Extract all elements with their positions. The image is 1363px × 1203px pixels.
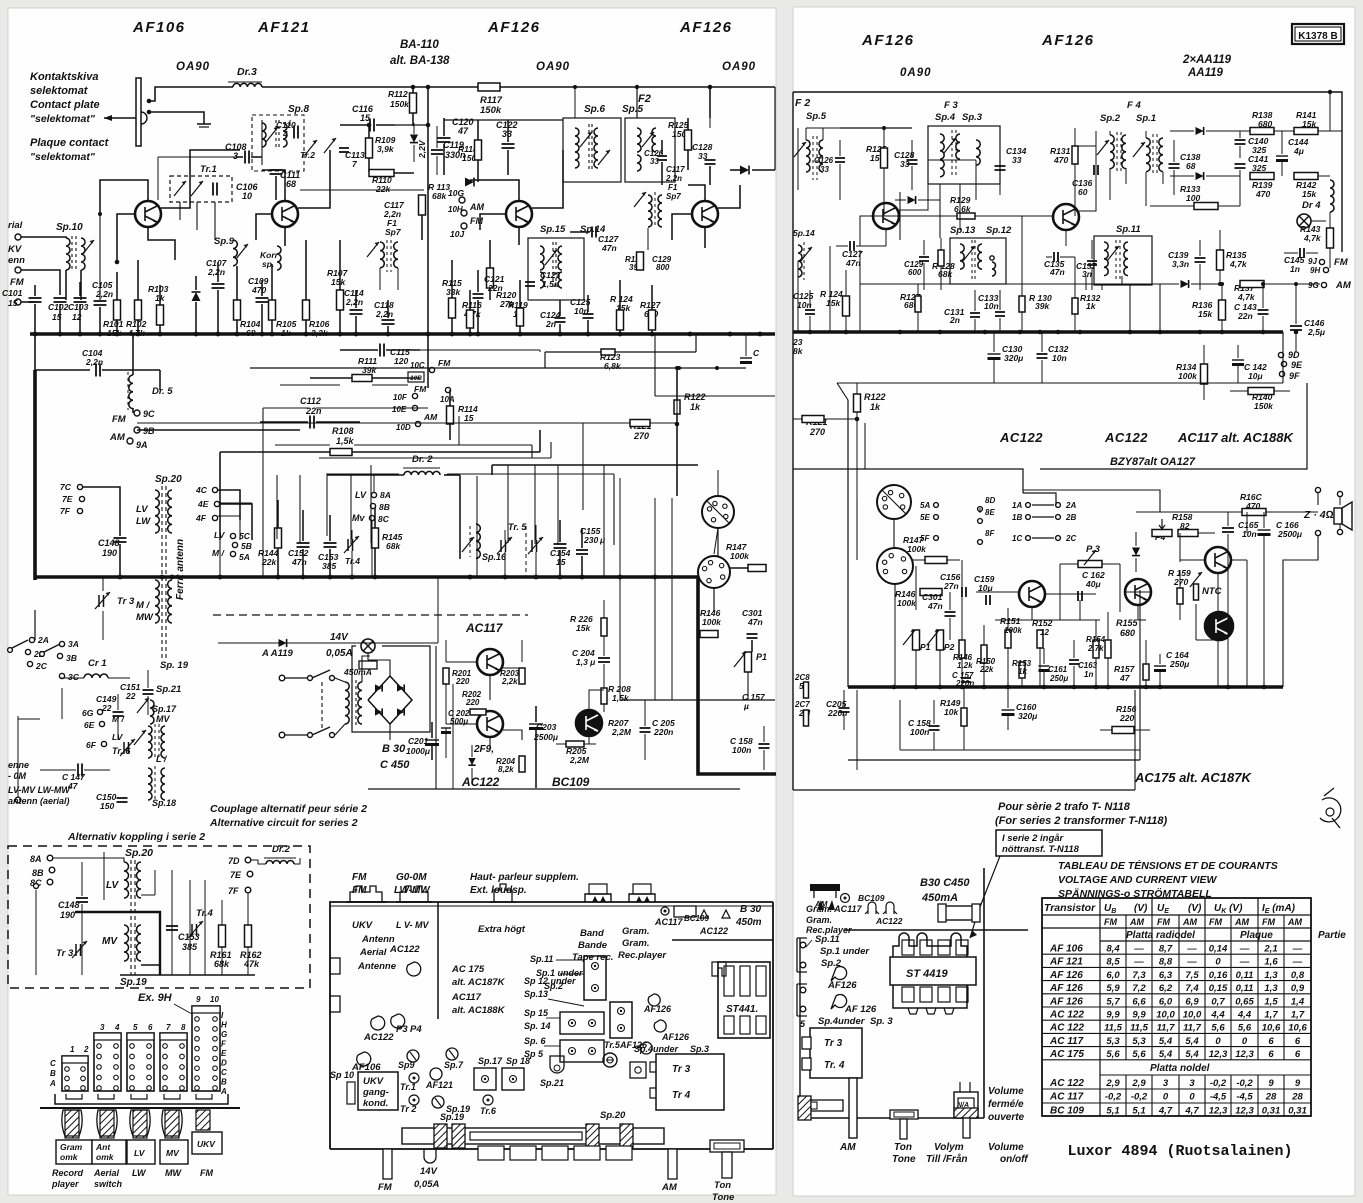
wire rf r2 <box>839 185 841 200</box>
svg-text:P2: P2 <box>944 642 955 652</box>
thick ground bus left page <box>30 332 775 336</box>
svg-text:22k: 22k <box>979 665 994 674</box>
svg-text:12,3: 12,3 <box>1209 1105 1228 1116</box>
svg-text:alt. AC187K: alt. AC187K <box>452 977 506 988</box>
svg-text:1,3: 1,3 <box>1264 983 1278 994</box>
bridge rectifier <box>368 676 412 724</box>
svg-text:5E: 5E <box>920 513 930 522</box>
svg-text:68k: 68k <box>938 269 953 279</box>
IF can 2 <box>610 1002 632 1038</box>
svg-text:UKV: UKV <box>197 1139 216 1149</box>
svg-text:AM: AM <box>109 432 126 443</box>
svg-text:—: — <box>1292 957 1303 968</box>
svg-text:Pour sèrie 2 trafo T- N118: Pour sèrie 2 trafo T- N118 <box>998 801 1131 813</box>
svg-text:G: G <box>221 1030 227 1039</box>
svg-text:B 30: B 30 <box>382 743 406 755</box>
screw near tr5 <box>630 1062 646 1078</box>
svg-text:Platta noldel: Platta noldel <box>1150 1063 1210 1074</box>
svg-text:47n: 47n <box>927 601 943 611</box>
svg-text:8C: 8C <box>378 514 390 524</box>
svg-text:AC 122: AC 122 <box>1049 1078 1084 1089</box>
svg-text:AM: AM <box>469 202 484 212</box>
wires bc109 <box>589 690 604 710</box>
svg-text:Tr.6: Tr.6 <box>480 1106 497 1116</box>
svg-text:MV: MV <box>166 1148 180 1158</box>
svg-text:AM: AM <box>423 412 438 422</box>
svg-text:0,14: 0,14 <box>1209 944 1228 955</box>
svg-text:fermé/e: fermé/e <box>988 1099 1024 1110</box>
svg-text:2,2n: 2,2n <box>345 297 363 307</box>
svg-text:100k: 100k <box>730 551 750 561</box>
svg-text:470: 470 <box>1053 155 1068 165</box>
svg-text:AC 122: AC 122 <box>1049 1010 1084 1021</box>
svg-text:Tr. 6: Tr. 6 <box>112 746 131 756</box>
svg-text:Sp9: Sp9 <box>398 1060 415 1070</box>
wire matrix <box>1023 493 1056 505</box>
svg-text:Tr 3: Tr 3 <box>56 948 74 959</box>
svg-text:6: 6 <box>1295 1036 1301 1047</box>
socket extra hogt <box>494 884 512 902</box>
screw Tr1 <box>409 1073 419 1083</box>
svg-text:BZY87alt OA127: BZY87alt OA127 <box>1110 456 1196 468</box>
svg-text:Gram. AC117: Gram. AC117 <box>806 904 863 914</box>
svg-text:60: 60 <box>1078 187 1088 197</box>
wires T3 region <box>470 180 519 201</box>
terminals 8A 8B 8C alt <box>47 855 53 861</box>
svg-text:5,9: 5,9 <box>1106 983 1120 994</box>
svg-text:Volym: Volym <box>934 1142 964 1153</box>
svg-text:FM: FM <box>1262 917 1275 927</box>
svg-text:1C: 1C <box>1012 534 1022 543</box>
svg-text:1,5k: 1,5k <box>336 436 355 446</box>
right page <box>793 7 1355 1196</box>
svg-text:47k: 47k <box>243 959 260 969</box>
socket UKV top <box>350 886 382 902</box>
dashed line mid <box>213 614 528 616</box>
wire am line <box>860 283 1160 285</box>
chassis line <box>40 1107 240 1109</box>
IF transformer Sp13 Sp12 <box>950 238 1006 284</box>
svg-text:10F: 10F <box>393 393 408 402</box>
svg-text:Dr 4: Dr 4 <box>1302 200 1321 211</box>
svg-text:F 4: F 4 <box>1127 100 1141 111</box>
svg-text:Cr 1: Cr 1 <box>88 658 106 669</box>
svg-text:0,31: 0,31 <box>1288 1105 1307 1116</box>
svg-text:1: 1 <box>70 1045 75 1054</box>
svg-text:5,6: 5,6 <box>1238 1023 1252 1034</box>
diode AA119 <box>218 642 438 644</box>
wire 4C runs <box>218 489 240 491</box>
svg-text:C126: C126 <box>814 156 834 165</box>
transformer Sp11 <box>1094 236 1152 285</box>
svg-text:40μ: 40μ <box>1085 579 1101 589</box>
DIN socket 2 <box>698 556 730 588</box>
wires 4x <box>218 490 240 520</box>
svg-text:Sp 12 under: Sp 12 under <box>524 976 576 986</box>
svg-text:9: 9 <box>1295 1078 1301 1089</box>
resistor R102 <box>137 260 139 300</box>
terminal 10C <box>429 367 434 372</box>
svg-text:15k: 15k <box>1302 189 1317 199</box>
svg-text:H: H <box>221 1021 227 1030</box>
svg-text:AF 126: AF 126 <box>1049 970 1083 981</box>
svg-text:0,15: 0,15 <box>1209 983 1228 994</box>
svg-text:Sp.20: Sp.20 <box>155 474 182 485</box>
svg-text:Gram: Gram <box>60 1142 83 1152</box>
socket gram <box>629 894 655 902</box>
svg-text:FM: FM <box>378 1182 393 1193</box>
wire drop from BA-110 <box>427 87 429 388</box>
svg-text:AC 117: AC 117 <box>1049 1036 1084 1047</box>
svg-text:5C: 5C <box>239 531 251 541</box>
svg-text:Ex. 9H: Ex. 9H <box>138 992 173 1004</box>
svg-text:8B: 8B <box>379 502 390 512</box>
svg-text:—: — <box>1239 957 1250 968</box>
svg-text:AF126: AF126 <box>619 1040 648 1050</box>
svg-text:(V): (V) <box>1188 903 1202 914</box>
svg-text:Sp. 19: Sp. 19 <box>160 660 189 671</box>
svg-text:6,2: 6,2 <box>1159 983 1173 994</box>
svg-text:8,7: 8,7 <box>1159 944 1173 955</box>
svg-text:1k: 1k <box>155 293 166 303</box>
knob Gram omk <box>65 1110 79 1138</box>
svg-text:KV: KV <box>8 244 22 255</box>
svg-text:14V: 14V <box>330 632 349 643</box>
svg-text:C 450: C 450 <box>380 759 410 771</box>
svg-text:4,4: 4,4 <box>1210 1010 1225 1021</box>
diode zener 2,2V <box>410 135 418 143</box>
terminal 9E <box>1281 361 1286 366</box>
svg-text:L V- MV: L V- MV <box>396 920 429 930</box>
svg-text:7F: 7F <box>60 506 71 516</box>
svg-text:11,7: 11,7 <box>1157 1023 1176 1034</box>
svg-text:3: 3 <box>1189 1078 1195 1089</box>
svg-text:470: 470 <box>251 285 266 295</box>
wire socket link <box>714 528 718 554</box>
socket band <box>585 894 611 902</box>
svg-text:15: 15 <box>464 413 474 423</box>
terminals 3A 3B 3C <box>59 641 64 646</box>
svg-text:Sp.1: Sp.1 <box>1136 113 1156 124</box>
ferrite antenna Sp.19 MW <box>155 580 159 623</box>
svg-text:Sp.16: Sp.16 <box>482 552 507 562</box>
trimmer Tr4 alt <box>191 924 193 936</box>
wire audio extra <box>995 619 1100 621</box>
Ton shaft <box>890 1110 918 1119</box>
transistor AC122 a <box>1019 581 1045 607</box>
bridge loop <box>352 646 430 732</box>
svg-text:AF 126: AF 126 <box>844 1004 877 1015</box>
svg-text:8A: 8A <box>380 490 391 500</box>
svg-text:ST441.: ST441. <box>726 1004 758 1015</box>
svg-text:5A: 5A <box>239 552 250 562</box>
svg-text:2500μ: 2500μ <box>533 732 559 742</box>
svg-text:6,3: 6,3 <box>1159 970 1173 981</box>
svg-text:Sp. 14: Sp. 14 <box>524 1021 551 1031</box>
svg-text:10,0: 10,0 <box>1183 1010 1202 1021</box>
svg-text:6F: 6F <box>86 740 97 750</box>
wire left top drops <box>159 370 161 390</box>
svg-text:Dr.3: Dr.3 <box>237 66 257 78</box>
svg-text:100: 100 <box>1186 193 1200 203</box>
svg-text:250μ: 250μ <box>1049 674 1068 683</box>
svg-text:Sp.11: Sp.11 <box>530 954 553 964</box>
svg-text:1,7: 1,7 <box>1264 1010 1278 1021</box>
svg-text:OA90: OA90 <box>722 61 756 73</box>
svg-text:AC122: AC122 <box>461 775 500 789</box>
svg-text:AF106: AF106 <box>132 19 186 36</box>
svg-text:AC 122: AC 122 <box>1049 1023 1084 1034</box>
svg-text:325: 325 <box>1252 163 1266 173</box>
svg-text:15: 15 <box>8 298 18 308</box>
svg-text:15k: 15k <box>576 623 591 633</box>
svg-text:8,4: 8,4 <box>1106 944 1120 955</box>
connector bar <box>55 1094 228 1104</box>
svg-text:AC 175: AC 175 <box>451 964 485 975</box>
svg-text:E: E <box>221 1049 227 1058</box>
svg-text:AF 126: AF 126 <box>1049 996 1083 1007</box>
svg-text:10μ: 10μ <box>1248 371 1263 381</box>
svg-text:28: 28 <box>1291 1092 1303 1103</box>
Tr3 Tr4 box right <box>810 1028 862 1078</box>
svg-text:AF126: AF126 <box>661 1032 690 1042</box>
transistor T4 AF126 <box>692 201 718 227</box>
wire r1 <box>806 127 840 129</box>
svg-text:Band: Band <box>580 928 604 939</box>
svg-text:4: 4 <box>114 1023 120 1032</box>
wide can 2 <box>560 1040 604 1062</box>
svg-text:Alternative circuit for ser: Alternative circuit for series 2 <box>209 817 358 829</box>
svg-text:NTC: NTC <box>1202 586 1222 597</box>
svg-text:39k: 39k <box>1035 301 1050 311</box>
svg-text:450mA: 450mA <box>921 892 958 904</box>
transistor T6 right <box>1053 204 1079 230</box>
resistor R153 <box>1019 662 1025 678</box>
svg-text:450m: 450m <box>735 917 762 928</box>
svg-text:-4,5: -4,5 <box>1210 1092 1227 1103</box>
svg-text:Sp 5: Sp 5 <box>524 1049 544 1059</box>
svg-text:AF121: AF121 <box>257 19 311 36</box>
svg-text:C117: C117 <box>666 165 685 174</box>
svg-text:Sp.17: Sp.17 <box>478 1056 503 1066</box>
lamp right <box>1297 214 1311 228</box>
svg-text:9E: 9E <box>1291 360 1303 370</box>
wire y368 <box>250 367 746 369</box>
knob MV <box>165 1110 179 1138</box>
svg-text:250μ: 250μ <box>1169 659 1190 669</box>
svg-text:9A: 9A <box>136 440 148 450</box>
svg-text:Tr.5: Tr.5 <box>604 1040 621 1050</box>
left wall tabs <box>330 958 340 974</box>
svg-text:Partie: Partie <box>1318 930 1346 941</box>
svg-text:9D: 9D <box>1288 350 1300 360</box>
terminal 9B <box>134 427 140 433</box>
svg-text:C163: C163 <box>1078 661 1098 670</box>
svg-text:AC117: AC117 <box>451 992 482 1003</box>
svg-text:P1: P1 <box>920 642 931 652</box>
coil F1Sp7 <box>648 195 652 227</box>
svg-text:omk: omk <box>96 1152 115 1162</box>
terminal 9A <box>127 438 133 444</box>
svg-text:100n: 100n <box>910 727 929 737</box>
terminal 9J FM <box>1319 259 1324 264</box>
svg-text:10A: 10A <box>440 395 455 404</box>
svg-text:selektomat: selektomat <box>30 85 89 97</box>
svg-text:15k: 15k <box>331 277 346 287</box>
diode AA119 top <box>1196 127 1204 135</box>
svg-text:22n: 22n <box>1237 311 1253 321</box>
svg-text:Sp. 3: Sp. 3 <box>870 1016 893 1027</box>
tuning shaft <box>402 1128 664 1144</box>
svg-text:BC109: BC109 <box>552 775 590 789</box>
svg-text:Antenne: Antenne <box>357 961 397 972</box>
svg-text:AC 117: AC 117 <box>1049 1092 1084 1103</box>
svg-text:AC122: AC122 <box>363 1032 394 1043</box>
svg-text:Sp.21: Sp.21 <box>156 684 181 695</box>
svg-text:12: 12 <box>72 312 82 322</box>
svg-text:M /: M / <box>212 548 225 558</box>
svg-text:UK (V): UK (V) <box>1214 903 1243 915</box>
svg-text:2n: 2n <box>949 315 960 325</box>
wire rf r6 <box>1065 230 1067 246</box>
bottom frame audio <box>848 759 1140 761</box>
svg-text:Extra högt: Extra högt <box>478 924 526 935</box>
svg-text:Sp.11: Sp.11 <box>815 934 840 945</box>
right chassis outline <box>983 868 985 1118</box>
socket LV-MV <box>400 886 428 902</box>
svg-text:8,2k: 8,2k <box>498 765 514 774</box>
svg-text:10n: 10n <box>797 300 812 310</box>
svg-text:3B: 3B <box>66 653 77 663</box>
svg-text:AC122: AC122 <box>389 944 420 955</box>
bus second line <box>34 334 36 370</box>
terminal 9F <box>1279 371 1284 376</box>
capacitor C102 <box>54 297 67 299</box>
transformer F1 Sp7 <box>380 242 384 268</box>
svg-text:190: 190 <box>60 910 75 920</box>
svg-text:AA119: AA119 <box>1187 67 1224 79</box>
svg-text:μ: μ <box>599 535 606 545</box>
transistor T2 AF121 <box>272 201 298 227</box>
svg-text:Sp.11: Sp.11 <box>1116 224 1141 235</box>
svg-text:AF126: AF126 <box>1041 32 1095 49</box>
svg-text:8F: 8F <box>985 529 995 538</box>
svg-text:320μ: 320μ <box>1004 353 1024 363</box>
svg-text:omk: omk <box>60 1152 79 1162</box>
resistor R151 <box>1005 630 1011 648</box>
capacitor C152 <box>297 542 310 544</box>
svg-text:ST 4419: ST 4419 <box>906 968 948 980</box>
svg-text:µ: µ <box>743 701 749 711</box>
screw Sp19 <box>432 1096 444 1108</box>
svg-text:FM: FM <box>200 1168 213 1178</box>
svg-text:7E: 7E <box>62 494 73 504</box>
DIN socket r2 <box>877 548 913 584</box>
svg-text:68k: 68k <box>386 541 401 551</box>
coil Sp.16 <box>476 524 480 558</box>
wire y394 <box>654 335 656 396</box>
svg-text:6,9: 6,9 <box>1185 996 1199 1007</box>
svg-text:B30 C450: B30 C450 <box>920 877 970 889</box>
svg-text:7,4: 7,4 <box>1185 983 1199 994</box>
wire am drop <box>1295 284 1297 290</box>
IF transformer right F2 <box>806 140 810 172</box>
terminals 6G 6E 6F <box>97 709 102 714</box>
trimmer Tr.6 <box>123 742 125 754</box>
svg-text:R122: R122 <box>684 392 706 402</box>
svg-text:C112: C112 <box>300 396 321 406</box>
svg-text:Plaque contact: Plaque contact <box>30 137 110 149</box>
potentiometer P1 r <box>913 630 920 650</box>
svg-text:47n: 47n <box>291 557 307 567</box>
chassis right edge <box>772 902 774 1149</box>
thick L to right <box>698 577 776 774</box>
svg-text:Gram.: Gram. <box>622 938 649 949</box>
svg-text:2n: 2n <box>545 319 556 329</box>
IF transformer F3 <box>928 126 1000 184</box>
svg-text:10: 10 <box>242 191 252 201</box>
svg-text:AC117 alt. AC188K: AC117 alt. AC188K <box>1177 430 1294 445</box>
wire rf r9 <box>1085 276 1087 290</box>
svg-text:8,8: 8,8 <box>1159 957 1173 968</box>
svg-text:5,4: 5,4 <box>1159 1049 1173 1060</box>
svg-text:800: 800 <box>656 263 670 272</box>
svg-text:15: 15 <box>556 557 566 567</box>
svg-text:10n: 10n <box>984 301 999 311</box>
wires Dr2 area <box>459 475 461 559</box>
platform <box>672 939 773 941</box>
capacitor C103 <box>74 297 87 299</box>
svg-text:enn: enn <box>8 255 25 266</box>
diode r mid <box>908 196 916 204</box>
wire socket r <box>893 519 895 548</box>
diode am det <box>1181 280 1189 288</box>
svg-text:R151: R151 <box>1000 616 1021 626</box>
svg-text:Sp.2: Sp.2 <box>1100 113 1121 124</box>
svg-text:MW: MW <box>165 1168 182 1178</box>
svg-text:230: 230 <box>583 535 598 545</box>
svg-text:9: 9 <box>196 995 201 1004</box>
svg-text:Sp.4: Sp.4 <box>935 112 956 123</box>
svg-text:9G: 9G <box>1308 281 1319 290</box>
svg-text:5: 5 <box>133 1023 138 1032</box>
svg-text:28: 28 <box>1265 1092 1277 1103</box>
svg-text:3n: 3n <box>1082 269 1092 279</box>
diode AA119 bottom <box>1196 172 1204 180</box>
svg-text:Dr.2: Dr.2 <box>272 844 291 855</box>
svg-text:FM: FM <box>1334 257 1349 268</box>
svg-text:150k: 150k <box>390 99 410 109</box>
wires audio left <box>446 661 477 663</box>
wire rf r7 <box>1109 168 1111 200</box>
svg-text:on/off: on/off <box>1000 1154 1029 1165</box>
wire y408 <box>263 407 308 409</box>
IF transformer F4 <box>1110 135 1114 169</box>
svg-text:15k: 15k <box>1198 309 1213 319</box>
svg-text:4,7k: 4,7k <box>1303 233 1322 243</box>
svg-text:alt. BA-138: alt. BA-138 <box>390 55 450 67</box>
svg-text:2B: 2B <box>1065 513 1076 522</box>
svg-text:2,1: 2,1 <box>1263 944 1277 955</box>
svg-text:player: player <box>51 1179 79 1189</box>
svg-text:AF126: AF126 <box>487 19 541 36</box>
wire dashed vertical sp16 <box>525 526 527 577</box>
terminal antenna bottom <box>15 797 21 803</box>
svg-text:4C: 4C <box>195 485 208 495</box>
svg-text:Tr 4: Tr 4 <box>672 1090 691 1101</box>
transistor T5 right <box>873 203 899 229</box>
svg-text:AC122: AC122 <box>1104 430 1148 445</box>
